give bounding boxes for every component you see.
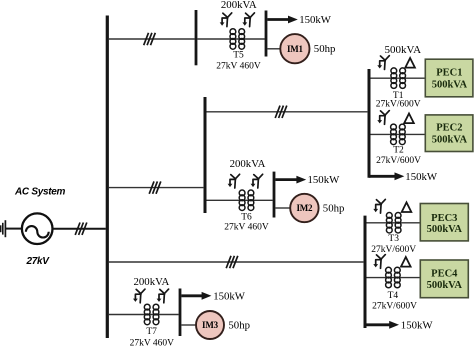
svg-text:PEC4: PEC4 <box>431 268 458 279</box>
induction motor IM1 <box>280 34 309 63</box>
winding symbol: grounded wye (T2 primary) <box>377 111 389 125</box>
svg-text:IM2: IM2 <box>296 203 313 213</box>
node bar (feeder 4 secondary) <box>179 289 182 337</box>
three-phase ticks (feeder 2) <box>149 181 161 193</box>
svg-text:27kV: 27kV <box>26 256 51 267</box>
svg-text:50hp: 50hp <box>314 43 336 55</box>
bus: main 27kV bus <box>106 16 109 339</box>
svg-text:150kW: 150kW <box>213 290 246 302</box>
wire <box>109 314 179 316</box>
svg-text:500kVA: 500kVA <box>427 224 463 235</box>
svg-text:T2: T2 <box>393 145 404 155</box>
induction motor IM2 <box>290 194 318 222</box>
svg-text:T7: T7 <box>146 327 157 337</box>
wire <box>267 48 280 50</box>
load arrow 150kW (feeder 2) <box>275 176 306 184</box>
svg-text:200kVA: 200kVA <box>134 276 170 288</box>
svg-text:T6: T6 <box>241 213 252 223</box>
transformer T2 <box>391 124 406 145</box>
node bar (feeder 1 primary) <box>195 10 198 65</box>
winding symbol: delta (T3 secondary) <box>402 202 412 212</box>
three-phase ticks (feeder to T1/T2 group) <box>275 106 287 118</box>
three-phase ticks (feeder 1) <box>144 33 156 45</box>
svg-text:27kV 460V: 27kV 460V <box>224 223 269 233</box>
winding symbol: delta (T2 secondary) <box>404 114 414 124</box>
wire <box>275 207 290 209</box>
svg-text:500kVA: 500kVA <box>432 79 468 90</box>
svg-text:PEC2: PEC2 <box>436 123 462 134</box>
svg-text:500kVA: 500kVA <box>432 134 468 145</box>
winding symbol: grounded wye (T6 secondary) <box>251 174 263 188</box>
wire <box>109 261 364 263</box>
svg-text:27kV/600V: 27kV/600V <box>371 245 416 255</box>
transformer T3 <box>386 213 401 234</box>
wire <box>6 228 22 230</box>
wire <box>207 111 368 113</box>
svg-text:500kVA: 500kVA <box>427 280 463 291</box>
winding symbol: grounded wye (T7 primary) <box>133 289 145 303</box>
svg-text:27kV/600V: 27kV/600V <box>376 156 421 166</box>
svg-text:50hp: 50hp <box>228 320 250 332</box>
winding symbol: grounded wye (T7 secondary) <box>157 289 169 303</box>
winding symbol: grounded wye (T6 primary) <box>228 174 240 188</box>
transformer T5 <box>230 29 245 49</box>
svg-text:IM3: IM3 <box>202 320 219 330</box>
winding symbol: delta (T1 secondary) <box>405 58 415 68</box>
transformer T4 <box>386 267 401 287</box>
AC source G1 (27kV system) <box>22 213 53 244</box>
wire <box>367 277 421 279</box>
svg-text:PEC1: PEC1 <box>436 67 462 78</box>
svg-text:PEC3: PEC3 <box>431 213 457 224</box>
converter PEC3 <box>420 204 468 241</box>
winding symbol: grounded wye (T5 secondary) <box>242 13 254 27</box>
svg-text:500kVA: 500kVA <box>385 44 422 56</box>
load arrow 150kW (group B aux load) <box>365 321 399 329</box>
transformer T7 <box>144 304 159 324</box>
wire <box>207 199 273 201</box>
svg-text:50hp: 50hp <box>323 203 345 215</box>
load arrow 150kW (feeder 1) <box>267 16 297 24</box>
winding symbol: grounded wye (T1 primary) <box>377 56 389 70</box>
bus: PEC group B bus <box>364 216 367 328</box>
winding symbol: grounded wye (T3 primary) <box>373 199 385 213</box>
svg-text:27kV/600V: 27kV/600V <box>376 100 421 110</box>
svg-text:150kW: 150kW <box>405 171 438 183</box>
svg-text:AC System: AC System <box>14 187 66 198</box>
three-phase ticks (source feeder) <box>75 223 87 235</box>
bus: PEC group A bus <box>368 69 371 178</box>
node bar (feeder 2 secondary) <box>273 172 276 218</box>
bus: sub-bus 2 <box>204 97 207 213</box>
winding symbol: grounded wye (T4 primary) <box>373 255 385 269</box>
svg-text:200kVA: 200kVA <box>221 0 257 11</box>
wire <box>367 222 421 224</box>
wire <box>53 228 106 230</box>
svg-text:150kW: 150kW <box>299 14 332 26</box>
wire <box>181 324 196 326</box>
converter PEC2 <box>425 115 473 152</box>
ground (source earth) <box>1 220 6 237</box>
load arrow 150kW (feeder 4) <box>181 292 211 300</box>
svg-text:27kV 460V: 27kV 460V <box>130 339 175 347</box>
svg-text:150kW: 150kW <box>401 319 434 331</box>
winding symbol: delta (T4 secondary) <box>401 257 411 267</box>
transformer T1 <box>391 68 406 89</box>
svg-text:IM1: IM1 <box>287 44 304 54</box>
wire <box>371 77 426 79</box>
svg-text:T3: T3 <box>388 234 399 244</box>
transformer T6 <box>239 190 254 211</box>
svg-text:T4: T4 <box>388 291 399 301</box>
induction motor IM3 <box>196 311 224 339</box>
wire <box>371 133 426 135</box>
converter PEC4 <box>420 260 468 298</box>
svg-text:27kV 460V: 27kV 460V <box>216 61 261 71</box>
node bar (feeder 1 secondary) <box>265 11 268 57</box>
three-phase ticks (feeder 3) <box>226 256 238 268</box>
wire <box>109 38 195 40</box>
svg-text:T5: T5 <box>233 50 244 60</box>
wire <box>197 38 264 40</box>
svg-text:200kVA: 200kVA <box>230 158 266 170</box>
converter PEC1 <box>425 59 473 97</box>
svg-text:150kW: 150kW <box>308 174 341 186</box>
winding symbol: grounded wye (T5 primary) <box>220 13 232 27</box>
wire <box>109 187 203 189</box>
load arrow 150kW (group A aux load) <box>369 172 404 180</box>
svg-text:27kV/600V: 27kV/600V <box>372 301 417 311</box>
